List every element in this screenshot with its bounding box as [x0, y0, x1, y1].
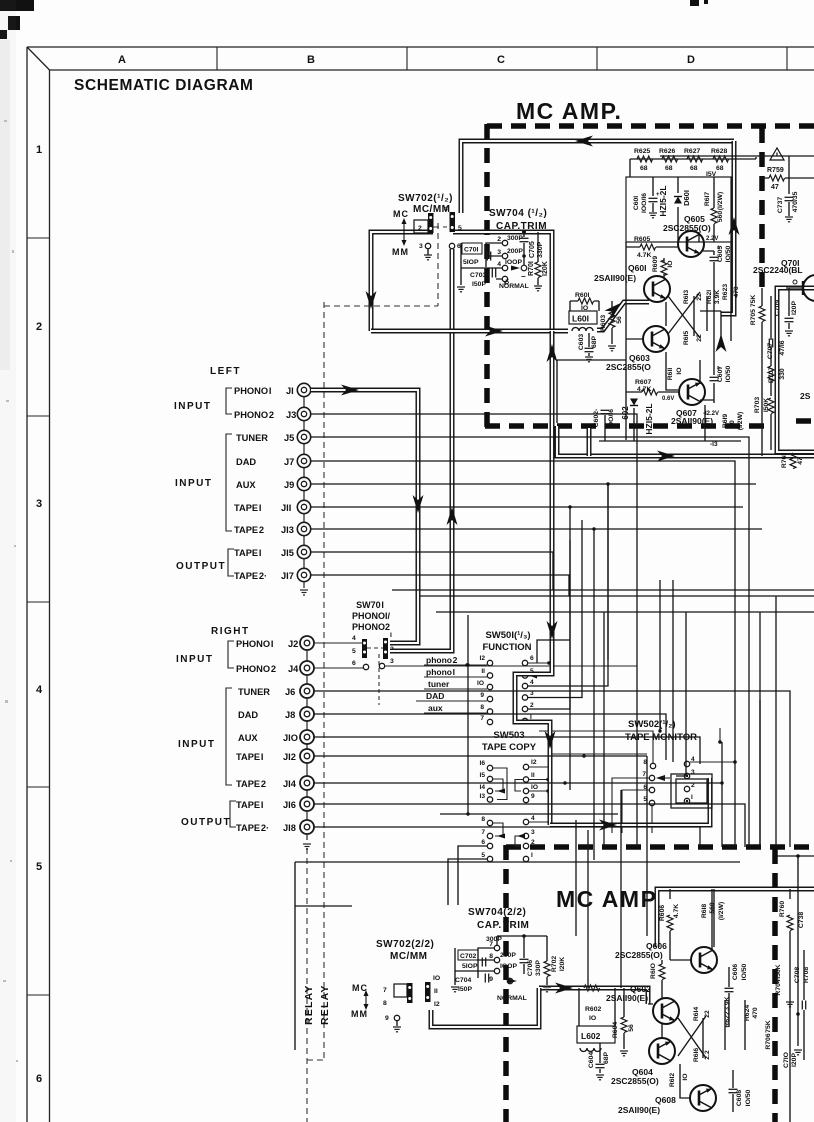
svg-text:I: I: [390, 632, 392, 639]
svg-text:MC/MM: MC/MM: [390, 951, 428, 962]
svg-text:TAPE 2: TAPE 2: [236, 779, 266, 789]
wire contact5: [496, 279, 505, 285]
svg-text:IO/50: IO/50: [745, 1089, 752, 1106]
svg-text:MC: MC: [393, 209, 409, 219]
capacitor C709: [774, 288, 798, 336]
svg-text:30: 30: [729, 420, 736, 428]
svg-text:SW702(2/2): SW702(2/2): [376, 939, 434, 950]
svg-text:JI7: JI7: [281, 571, 294, 581]
svg-text:J2: J2: [288, 639, 298, 649]
SW502 right contacts 4..1: [684, 761, 689, 803]
svg-text:68: 68: [665, 165, 673, 172]
svg-text:C707: C707: [767, 343, 774, 359]
capacitor C607: [710, 337, 733, 403]
resistor R606: [659, 889, 691, 960]
svg-text:phono I: phono I: [426, 667, 455, 677]
transistor Q605: [663, 214, 718, 257]
resistor R615: [683, 331, 703, 346]
wire contact 7 left: [612, 778, 650, 833]
SW502 title: [625, 719, 697, 743]
svg-text:IOO/I6: IOO/I6: [608, 409, 615, 429]
svg-text:R6I2: R6I2: [669, 1073, 676, 1088]
wire J3: [311, 414, 637, 666]
bus bottom amp from SW702-2: [431, 988, 539, 1027]
svg-text:AUX: AUX: [238, 733, 258, 743]
svg-text:IO: IO: [433, 975, 440, 982]
resistor R705: [750, 288, 765, 456]
capacitor C601: [633, 177, 658, 218]
svg-text:+: +: [656, 192, 660, 198]
svg-text:CAP. TRIM: CAP. TRIM: [477, 920, 529, 931]
svg-text:I20K: I20K: [559, 957, 566, 971]
wire top connect: [497, 936, 547, 946]
wire bottom-left aux: [295, 862, 740, 1050]
svg-text:IO: IO: [589, 1015, 596, 1022]
jack J4: [300, 661, 314, 675]
resistor R613: [683, 290, 703, 336]
wire J18: [314, 612, 760, 847]
svg-text:8: 8: [489, 953, 493, 960]
wire contact 6 left-down: [458, 846, 487, 905]
svg-text:PHONO I: PHONO I: [236, 639, 273, 649]
capacitor C605: [703, 245, 732, 337]
capacitor C710: [783, 1052, 798, 1068]
link 8-7: [493, 823, 503, 836]
capacitor C737: [777, 191, 799, 221]
wire J8: [314, 714, 666, 760]
svg-text:5: 5: [481, 852, 485, 859]
SW502 contact box: [671, 774, 712, 808]
junction C705 rail: [522, 230, 526, 234]
svg-text:TAPE I: TAPE I: [234, 548, 261, 558]
jack J9: [297, 477, 310, 490]
arrow right rail up: [729, 217, 740, 235]
svg-text:C602-: C602-: [593, 409, 600, 428]
wire SW501 c2: [528, 540, 570, 709]
svg-text:R705 75K: R705 75K: [750, 295, 757, 326]
SW503 upper left contacts 16..13: [487, 765, 492, 802]
SW501 right contacts 6..1: [522, 660, 527, 723]
svg-text:R6I7: R6I7: [704, 192, 711, 207]
RIGHT channel jack group: [176, 626, 314, 849]
svg-text:5IOP: 5IOP: [463, 259, 479, 266]
scan artifact top-left blob: [0, 0, 708, 39]
svg-text:3: 3: [390, 658, 394, 665]
resistor R607: [626, 379, 679, 395]
svg-text:TAPE COPY: TAPE COPY: [482, 742, 537, 753]
arrow SW701 bus up: [447, 507, 458, 525]
link 16-13: [493, 768, 507, 800]
svg-text:L60I: L60I: [572, 314, 589, 324]
resistor R610: [650, 960, 665, 998]
SW702 pole box pin2: [414, 220, 428, 233]
resistor R622 3.9K: [714, 290, 721, 304]
jack name labels: [234, 386, 296, 581]
SW701 pin numbers: [352, 632, 394, 667]
svg-text:MC AMP.: MC AMP.: [516, 98, 622, 124]
bus out of MC amp y456: [557, 426, 814, 456]
junction contact6 bus: [547, 661, 551, 665]
svg-text:C704: C704: [455, 977, 471, 984]
svg-text:I5: I5: [480, 772, 486, 779]
capacitor C738: [798, 912, 805, 928]
svg-text:C709: C709: [774, 300, 781, 316]
wire J7: [311, 461, 735, 762]
resistor R623: [722, 242, 740, 341]
svg-text:(I/2W): (I/2W): [737, 412, 744, 431]
svg-text:D60I: D60I: [682, 190, 691, 206]
svg-text:1: 1: [36, 144, 42, 156]
svg-text:56: 56: [616, 316, 623, 324]
resistor R760: [779, 889, 793, 1122]
svg-text:9: 9: [531, 793, 535, 800]
resistor R616: [693, 1048, 711, 1063]
wire vert x673: [672, 580, 674, 762]
svg-text:OUTPUT: OUTPUT: [176, 561, 226, 572]
svg-text:I50P: I50P: [472, 281, 486, 288]
svg-text:R609: R609: [652, 256, 659, 272]
wire contacts-left chain: [461, 243, 502, 268]
selector arrow: [365, 994, 367, 1006]
svg-text:R702: R702: [551, 956, 558, 972]
SW701 pole bar left: [362, 639, 367, 658]
svg-text:SW502(¹/₂): SW502(¹/₂): [628, 719, 676, 730]
wire drops into bottom amp: [576, 756, 647, 988]
svg-text:RELAY: RELAY: [303, 984, 315, 1025]
svg-text:330: 330: [779, 368, 786, 380]
switch SW701 PHONO1/PHONO2: [314, 600, 637, 705]
arrow into contact 7: [656, 775, 665, 781]
source name labels: [426, 655, 458, 713]
component box: [626, 177, 731, 242]
jack J17: [297, 568, 310, 581]
svg-text:R6I4: R6I4: [693, 1007, 700, 1022]
jack J15: [297, 545, 310, 558]
resistor R626: [659, 148, 678, 172]
svg-text:R6II: R6II: [667, 368, 674, 381]
svg-text:C605: C605: [717, 246, 724, 262]
grid letters: [118, 54, 695, 66]
svg-text:8: 8: [481, 816, 485, 823]
arrow J1 bus right: [341, 385, 359, 396]
polarity marks: [656, 192, 721, 373]
jacks J1..J17: [297, 383, 310, 581]
svg-text:TAPE 2·: TAPE 2·: [236, 823, 269, 833]
switch SW704(2/2) CAP.TRIM bottom: [451, 907, 566, 1002]
link 3-2: [515, 836, 523, 846]
svg-text:MM: MM: [351, 1009, 368, 1019]
svg-text:IO: IO: [531, 784, 538, 791]
svg-text:R704 I50K: R704 I50K: [775, 964, 782, 995]
svg-text:I2: I2: [480, 655, 486, 662]
junction dots: [466, 482, 723, 815]
svg-text:7: 7: [481, 829, 485, 836]
resistor R614: [693, 1007, 711, 1058]
svg-text:47: 47: [771, 184, 779, 191]
svg-text:PHONO2: PHONO2: [352, 622, 390, 632]
bus stub x589: [587, 428, 592, 456]
cross coupling wires bottom: [678, 1016, 706, 1058]
jack ground chain wire: [306, 643, 308, 840]
frame row ticks: [27, 238, 50, 995]
junction dots: [522, 934, 526, 938]
wire J12: [314, 755, 647, 757]
transistor Q601: [594, 263, 670, 302]
svg-text:68P: 68P: [603, 1051, 610, 1064]
resistor R622 bottom: [724, 996, 731, 1050]
svg-text:C603: C603: [578, 334, 585, 350]
grid numbers: [36, 144, 43, 1085]
svg-text:SW50I(¹/₃): SW50I(¹/₃): [485, 630, 530, 641]
LEFT channel jack group: [174, 366, 311, 595]
svg-text:JI3: JI3: [281, 525, 294, 535]
svg-text:INPUT: INPUT: [176, 654, 214, 665]
rotor arrow: [508, 979, 517, 984]
svg-text:2: 2: [531, 839, 535, 846]
svg-text:TAPE I: TAPE I: [236, 800, 263, 810]
resistor R625: [634, 148, 653, 172]
wires source labels to contacts: [416, 665, 487, 713]
wire J17: [311, 575, 569, 596]
right-edge amp strip: [660, 148, 814, 469]
svg-text:R6I6: R6I6: [693, 1048, 700, 1063]
wire x760 drop: [759, 700, 761, 847]
svg-text:C607: C607: [717, 366, 724, 382]
capacitor C606: [725, 963, 749, 1027]
switch SW704(1/2) CAP.TRIM: [457, 208, 549, 292]
svg-text:C60I: C60I: [633, 196, 640, 210]
SW502 left contacts 8..5: [649, 763, 655, 805]
zener D602: [621, 399, 638, 442]
svg-text:6: 6: [36, 1073, 42, 1085]
svg-text:68P: 68P: [591, 335, 598, 348]
wire title stub: [719, 728, 721, 742]
svg-text:200P: 200P: [500, 952, 516, 959]
bus right amp box outline: [777, 288, 814, 452]
svg-text:C703: C703: [470, 272, 486, 279]
svg-text:D: D: [687, 54, 695, 66]
svg-text:CAP.TRIM: CAP.TRIM: [496, 221, 547, 232]
wire contact 5 left-down: [448, 859, 487, 905]
resistor R611: [666, 352, 683, 390]
svg-text:SW704 (¹/₂): SW704 (¹/₂): [489, 208, 547, 219]
resistor R707: [768, 367, 786, 383]
svg-text:II: II: [531, 772, 535, 779]
svg-text:68: 68: [716, 165, 724, 172]
bracket output pair: [230, 801, 236, 827]
svg-text:2.2V: 2.2V: [706, 236, 718, 242]
wire J14: [314, 782, 722, 784]
arrow MM bus down: [366, 291, 377, 309]
wire x722 drop: [721, 742, 723, 847]
svg-text:JII: JII: [281, 503, 291, 513]
warning triangle: [770, 148, 784, 160]
svg-text:TUNER: TUNER: [238, 687, 270, 697]
wire contact 5 down: [651, 806, 653, 833]
wire drops to SW501 right: [537, 612, 604, 860]
svg-text:4.7K: 4.7K: [637, 252, 651, 259]
arrow out bus right: [657, 451, 675, 462]
svg-text:A: A: [118, 54, 126, 66]
svg-text:C70I: C70I: [464, 247, 478, 254]
svg-text:56: 56: [628, 1024, 635, 1032]
SW701 contact 3: [379, 663, 384, 668]
wire J13: [311, 529, 762, 612]
svg-text:TUNER: TUNER: [236, 433, 268, 443]
pole bar left: [407, 983, 413, 1003]
svg-text:R622 3.9K: R622 3.9K: [724, 996, 731, 1027]
svg-text:R604: R604: [612, 1022, 619, 1038]
wire Q606 collector: [648, 889, 712, 1098]
wire 15V rail to right: [660, 156, 814, 194]
bus bottom amp to Q602: [539, 988, 648, 1004]
svg-text:I: I: [531, 852, 533, 859]
svg-text:R6I9: R6I9: [722, 414, 729, 429]
svg-text:2SC2240(BL: 2SC2240(BL: [753, 265, 803, 275]
resistor R621: [706, 290, 713, 331]
svg-text:DAD: DAD: [426, 691, 444, 701]
svg-text:R624: R624: [744, 1005, 751, 1021]
svg-text:47/I6: 47/I6: [779, 340, 786, 355]
svg-text:5: 5: [352, 648, 356, 655]
svg-text:J9: J9: [284, 480, 294, 490]
inductor L602: [577, 988, 615, 1052]
svg-text:R707: R707: [768, 367, 775, 383]
SW701 pole bar right: [383, 638, 388, 659]
svg-text:3: 3: [36, 498, 42, 510]
jack J14: [300, 776, 314, 790]
wire J11: [311, 507, 743, 790]
svg-text:47: 47: [797, 457, 804, 465]
svg-text:2: 2: [36, 321, 42, 333]
transistor Q701: [753, 258, 814, 301]
svg-text:68: 68: [690, 165, 698, 172]
wire contact 4 right: [690, 761, 735, 763]
SW501 contact dots 5,1: [524, 674, 526, 676]
jack ground chain wire: [303, 390, 305, 588]
switch SW502 TAPE MONITOR: [539, 719, 737, 833]
wire J5: [311, 437, 749, 847]
svg-text:IO: IO: [581, 305, 588, 312]
svg-text:R607: R607: [635, 379, 651, 386]
svg-text:2SAII90(E): 2SAII90(E): [594, 273, 636, 283]
svg-text:IO/50: IO/50: [725, 365, 732, 382]
ground pin3: [427, 249, 429, 256]
svg-text:IO: IO: [667, 260, 674, 267]
junction dot contact 12 wire: [465, 663, 468, 666]
jack J16: [300, 797, 314, 811]
svg-text:C7IO: C7IO: [783, 1052, 790, 1068]
wire contact 12 up right: [529, 754, 647, 767]
jack J13: [297, 522, 310, 535]
resistor R702: [543, 936, 566, 992]
bracket input sources: [226, 688, 232, 785]
svg-text:phono 2: phono 2: [426, 655, 458, 665]
jacks J2..J18: [300, 636, 314, 834]
svg-text:R6IO: R6IO: [650, 963, 657, 979]
bus SW701 to SW702 pole: [390, 249, 452, 651]
arrow tape monitor bus right: [599, 820, 617, 831]
capacitor C707: [767, 340, 786, 359]
resistor R609: [652, 256, 674, 278]
switch SW501 FUNCTION: [416, 630, 551, 725]
svg-text:22: 22: [696, 334, 703, 342]
wire J9: [311, 484, 756, 660]
svg-text:2SAII90(E): 2SAII90(E): [671, 416, 713, 426]
svg-text:R625: R625: [634, 148, 650, 155]
resistor R624: [744, 1000, 759, 1050]
capacitor C603: [578, 333, 598, 362]
top MC amp cluster: [557, 148, 756, 448]
SW503 upper right contacts 12..9: [523, 764, 528, 802]
svg-text:4: 4: [36, 684, 43, 696]
svg-text:AUX: AUX: [236, 480, 256, 490]
svg-text:22: 22: [696, 293, 703, 301]
ground below J17: [300, 590, 308, 595]
svg-text:Q60I: Q60I: [628, 263, 646, 273]
resistor R761: [781, 453, 804, 469]
svg-text:4.7K: 4.7K: [637, 386, 651, 393]
svg-text:R6I5: R6I5: [683, 331, 690, 346]
zener D601 HZ15-2L: [658, 177, 691, 242]
svg-text:RIGHT: RIGHT: [211, 626, 250, 637]
wires upper-right contacts to bus: [529, 779, 548, 781]
svg-text:C702: C702: [460, 953, 476, 960]
contacts 7..9: [494, 945, 512, 983]
svg-text:200P: 200P: [507, 248, 523, 255]
resistor R604: [612, 988, 635, 1056]
SW501 right pin numbers: [530, 655, 534, 721]
svg-text:JI: JI: [286, 386, 294, 396]
svg-text:TAPE I: TAPE I: [236, 752, 263, 762]
resistor R701: [537, 232, 539, 262]
svg-text:J6: J6: [285, 687, 295, 697]
svg-text:2: 2: [497, 236, 501, 243]
wire x735 drop: [735, 596, 776, 847]
resistor R627: [684, 148, 703, 172]
svg-text:3: 3: [691, 769, 695, 776]
wire out lines right: [392, 589, 814, 591]
svg-text:2SC2855(O: 2SC2855(O: [606, 362, 651, 372]
rotor contact + arrow: [511, 266, 520, 271]
cross coupling wires: [668, 292, 700, 338]
scan specks left margin: [3, 120, 18, 1062]
bottom rail: [599, 405, 741, 441]
svg-text:I2: I2: [531, 759, 537, 766]
resistor R612: [669, 1064, 689, 1094]
wire y814: [440, 615, 618, 814]
svg-text:IO: IO: [477, 680, 484, 687]
svg-text:J3: J3: [286, 410, 296, 420]
bus main lateral y331: [371, 329, 568, 334]
bus MC amp feed top: [461, 141, 734, 213]
capacitor C705: [523, 232, 525, 237]
frame column ticks: [217, 47, 787, 70]
svg-text:NORMAL: NORMAL: [497, 995, 527, 1002]
svg-text:R759: R759: [767, 167, 784, 174]
svg-text:L602: L602: [581, 1031, 601, 1041]
SW701 contact 6: [363, 664, 368, 669]
wire R625 row: [630, 157, 756, 177]
svg-text:4: 4: [444, 206, 448, 213]
svg-text:8: 8: [383, 1000, 387, 1007]
transistor Q606: [615, 941, 717, 973]
svg-text:SW704(2/2): SW704(2/2): [468, 907, 526, 918]
capacitor C702 boxed: [458, 950, 478, 960]
SW702 pole bar left: [428, 213, 434, 233]
zener HZ15-2L lower: [644, 403, 654, 434]
svg-text:JI2: JI2: [283, 752, 296, 762]
